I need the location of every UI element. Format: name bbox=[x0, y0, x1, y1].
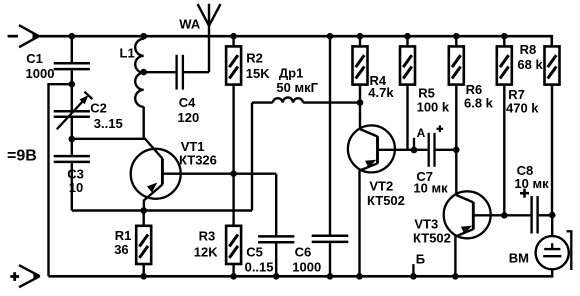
junction R7 / VT3 base line bbox=[501, 212, 508, 219]
base bar VT3 bbox=[472, 202, 475, 229]
plus sign of C7 bbox=[437, 128, 444, 130]
junction VT3 emitter / bottom rail bbox=[452, 273, 459, 280]
svg-text:WA: WA bbox=[179, 17, 201, 32]
resistor R1 36 bbox=[136, 226, 151, 264]
wire C8 to R8/BM node bbox=[539, 214, 553, 216]
svg-text:КТ502: КТ502 bbox=[367, 193, 405, 208]
capacitor C4 bbox=[175, 55, 177, 90]
base bar VT2 bbox=[376, 136, 379, 163]
wire C2 node to VT1 collector corner bbox=[72, 138, 145, 140]
svg-text:120: 120 bbox=[178, 110, 200, 125]
wire BM bottom lead to rail bbox=[551, 269, 553, 276]
junction top rail / R6 bbox=[453, 33, 460, 40]
wire top rail corner down to R8 bbox=[550, 35, 553, 46]
svg-text:R2: R2 bbox=[246, 50, 263, 65]
capacitor C8 10uF bbox=[530, 196, 532, 233]
earphone BM bbox=[536, 236, 569, 269]
svg-text:КТ326: КТ326 bbox=[179, 153, 217, 168]
wire VT1 base line to R2/R3 and C5 bbox=[162, 172, 276, 174]
svg-text:C1: C1 bbox=[26, 51, 43, 66]
wire to BM top bbox=[551, 215, 553, 236]
capacitor C3 bbox=[54, 155, 90, 158]
capacitor C5 (trimmer) bbox=[258, 235, 294, 238]
resistor R8 68k bbox=[545, 46, 560, 84]
svg-text:36: 36 bbox=[114, 242, 128, 257]
svg-text:А: А bbox=[417, 126, 426, 140]
wire C3 top lead bbox=[71, 139, 73, 155]
wire C6 bottom lead bbox=[329, 243, 331, 276]
wire L1 bottom lead bbox=[142, 107, 144, 139]
transistor VT2 KT502 (PNP) bbox=[348, 125, 395, 172]
svg-text:КТ502: КТ502 bbox=[413, 231, 451, 246]
svg-text:0..15: 0..15 bbox=[245, 260, 274, 275]
junction top rail / C6 line bbox=[327, 33, 334, 40]
junction VT1 emitter/R1/C3 line bbox=[140, 207, 147, 214]
svg-text:C4: C4 bbox=[179, 95, 196, 110]
wire branch to left vertical bbox=[49, 83, 72, 85]
plus sign of C8 bbox=[520, 192, 529, 195]
resistor R3 12K bbox=[226, 226, 241, 264]
base bar VT1 bbox=[161, 159, 164, 185]
junction C5 / bottom rail bbox=[273, 273, 280, 280]
wire C1 top lead bbox=[71, 36, 73, 62]
junction top rail / R7 bbox=[501, 33, 508, 40]
svg-text:R3: R3 bbox=[199, 228, 216, 243]
capacitor C1 bbox=[54, 62, 90, 65]
emitter lead VT2 diagonal bbox=[360, 163, 378, 170]
junction C2/C3/VT1 collector node bbox=[69, 136, 76, 143]
wire VT2 base to C7 bbox=[378, 149, 428, 151]
wire Dr1 right end to R4/VT2 node bbox=[303, 101, 360, 103]
resistor R6 6.8k bbox=[449, 46, 464, 84]
node A bbox=[413, 138, 415, 150]
junction top rail / R4 bbox=[357, 33, 364, 40]
emitter lead VT2 to bottom rail bbox=[358, 170, 360, 277]
wire R4 top lead bbox=[359, 36, 361, 46]
collector lead VT3 bbox=[456, 195, 473, 202]
wire C7 to R6/VT3 node bbox=[436, 149, 457, 151]
svg-text:=9В: =9В bbox=[7, 148, 37, 165]
inductor L1 (4 loops, tapped) bbox=[135, 39, 144, 107]
wire R1 top lead bbox=[142, 211, 144, 226]
svg-text:C2: C2 bbox=[90, 101, 107, 116]
svg-text:15K: 15K bbox=[246, 66, 270, 81]
wire C2 top lead bbox=[71, 84, 73, 110]
resistor R7 470k bbox=[497, 46, 512, 84]
wire C4 to antenna mast bbox=[184, 71, 209, 73]
wire R7 bottom lead bbox=[503, 85, 505, 216]
junction L1 tap bbox=[140, 69, 147, 76]
resistor R2 15K bbox=[226, 46, 241, 84]
svg-text:3..15: 3..15 bbox=[94, 116, 123, 131]
svg-text:R1: R1 bbox=[115, 228, 132, 243]
capacitor C7 10uF bbox=[428, 133, 430, 167]
transistor VT1 KT326 (PNP) bbox=[131, 149, 181, 199]
svg-text:C5: C5 bbox=[246, 245, 263, 260]
junction C7 / R6 / VT3 collector bbox=[453, 147, 460, 154]
svg-text:R5: R5 bbox=[418, 86, 435, 101]
wire R3 bottom lead bbox=[232, 264, 234, 276]
wire R8 bottom lead bbox=[551, 85, 553, 216]
junction R4 / Dr1 / VT2 collector bbox=[357, 99, 364, 106]
wire R2 top lead bbox=[232, 36, 234, 46]
junction top rail / C1 bbox=[69, 33, 76, 40]
wire emitter line C3 to feedback corner bbox=[72, 209, 252, 211]
svg-text:470 k: 470 k bbox=[506, 101, 539, 116]
wire to Dr1 left end bbox=[252, 101, 273, 103]
collector lead VT1 bbox=[144, 138, 162, 159]
plus polarity sign bbox=[10, 275, 19, 278]
wire R5 bottom lead bbox=[406, 85, 408, 150]
resistor R5 100k bbox=[400, 46, 415, 84]
resistor R4 4.7k bbox=[353, 46, 368, 84]
svg-text:100 k: 100 k bbox=[417, 100, 450, 115]
svg-text:12K: 12K bbox=[194, 245, 218, 260]
svg-text:ВМ: ВМ bbox=[509, 251, 529, 266]
wire R5 top lead bbox=[406, 36, 408, 46]
wire VT3 base to C8 bbox=[473, 214, 530, 216]
wire C3 bottom lead bbox=[71, 163, 73, 210]
svg-text:4.7k: 4.7k bbox=[368, 85, 394, 100]
junction base line / R2 / R3 bbox=[230, 170, 237, 177]
svg-text:Др1: Др1 bbox=[279, 66, 303, 81]
emitter arrow VT3 bbox=[461, 226, 472, 234]
svg-text:C6: C6 bbox=[295, 245, 312, 260]
svg-text:R8: R8 bbox=[520, 42, 537, 57]
variable arrow of C2 bbox=[57, 98, 86, 129]
capacitor C2 (variable) bbox=[54, 110, 90, 113]
wire C5 bottom lead bbox=[275, 243, 277, 276]
emitter lead VT3 diagonal bbox=[455, 229, 473, 236]
wire R4 bottom lead to VT2 collector bbox=[359, 85, 361, 130]
wire R6 bottom lead to VT3 collector bbox=[455, 85, 457, 196]
svg-text:6.8 k: 6.8 k bbox=[464, 96, 494, 111]
svg-text:Б: Б bbox=[416, 251, 425, 266]
node B bbox=[412, 264, 414, 276]
collector lead VT2 bbox=[360, 129, 378, 136]
wire top supply rail (minus) bbox=[39, 35, 552, 38]
svg-text:10 мк: 10 мк bbox=[514, 176, 549, 191]
wire left vertical branch bbox=[47, 83, 49, 276]
BM side bracket bbox=[567, 230, 572, 232]
wire bottom supply rail (plus) bbox=[49, 275, 554, 278]
wire C6 top lead from top rail bbox=[329, 36, 331, 234]
wire R7 top lead bbox=[503, 36, 505, 46]
minus polarity sign bbox=[8, 35, 18, 38]
junction R8 / C8 / BM bbox=[549, 212, 556, 219]
junction C1/C2/left branch node bbox=[69, 81, 76, 88]
junction VT2 emitter / bottom rail bbox=[356, 273, 363, 280]
emitter lead VT3 to bottom rail bbox=[454, 236, 456, 277]
svg-text:10 мк: 10 мк bbox=[413, 181, 448, 196]
wire R2 bottom lead bbox=[232, 85, 234, 174]
junction top rail / R2 bbox=[230, 33, 237, 40]
junction top rail / L1 bbox=[140, 33, 147, 40]
junction top rail / R5 bbox=[404, 33, 411, 40]
input terminal arrow (minus) bbox=[19, 25, 39, 36]
junction R1 / bottom rail bbox=[140, 273, 147, 280]
wire feedback vertical (Dr1 to emitter line) bbox=[251, 103, 253, 211]
inductor Dr1 50uH (3 loops) bbox=[273, 97, 303, 102]
svg-text:L1: L1 bbox=[120, 46, 135, 61]
wire C1 bottom lead bbox=[71, 70, 73, 84]
emitter lead VT1 vertical bbox=[143, 200, 145, 211]
emitter arrow VT2 bbox=[365, 160, 376, 168]
svg-text:50 мкГ: 50 мкГ bbox=[276, 80, 318, 95]
input terminal arrow (plus) bbox=[19, 265, 40, 276]
junction R3 / bottom rail bbox=[230, 273, 237, 280]
svg-text:1000: 1000 bbox=[292, 260, 321, 275]
antenna WA bbox=[208, 4, 210, 72]
svg-text:68 k: 68 k bbox=[517, 57, 543, 72]
junction C6 / bottom rail bbox=[327, 273, 334, 280]
wire C2 bottom lead bbox=[71, 118, 73, 139]
emitter arrow VT1 bbox=[147, 183, 157, 193]
wire R1 bottom lead bbox=[142, 264, 144, 276]
wire L1 tap to C4 bbox=[144, 71, 176, 73]
svg-text:VT2: VT2 bbox=[369, 179, 393, 194]
svg-text:VT3: VT3 bbox=[414, 217, 438, 232]
svg-text:1000: 1000 bbox=[26, 66, 55, 81]
wire R3 top lead (crosses emitter line) bbox=[232, 174, 234, 226]
wire R6 top lead bbox=[455, 36, 457, 46]
transistor VT3 KT502 (PNP) bbox=[444, 191, 491, 238]
wire C5 top lead from base line corner bbox=[275, 174, 277, 236]
capacitor C6 bbox=[312, 234, 349, 237]
emitter lead VT1 diagonal bbox=[144, 185, 163, 201]
